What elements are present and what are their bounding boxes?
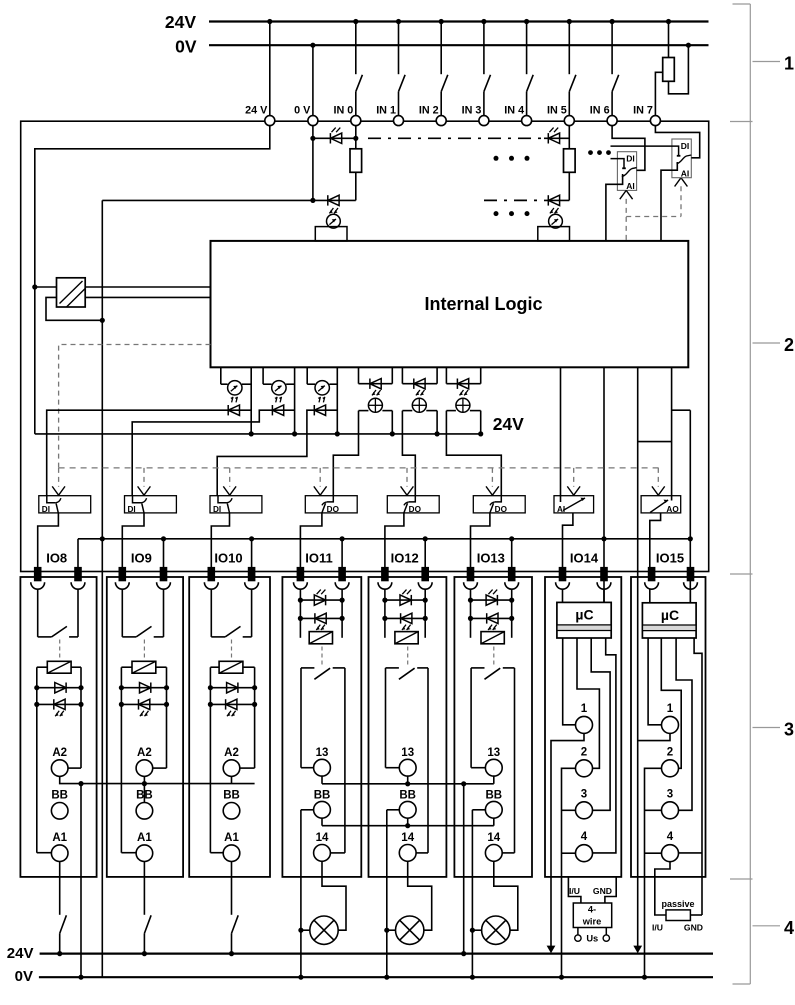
module IO10 frame (189, 577, 270, 877)
selector curve U2 (622, 168, 637, 177)
wire A2 link IO8 to IO10 (60, 776, 255, 783)
interface box DI (module IO10) (210, 496, 262, 513)
relay coil K4 module IO11 (309, 632, 332, 644)
wire box AI output to IO14 T1 (563, 513, 573, 567)
switch S0 on input IN 0 (355, 22, 357, 75)
suppressor diode D1 IN0 to 0V (313, 137, 356, 139)
relay contact module IO11 (301, 667, 314, 669)
suppressor diode module IO13 (470, 589, 472, 638)
terminal blocks module IO9 (119, 567, 127, 581)
contact wires module IO12 (385, 668, 387, 768)
module IO14 frame (545, 577, 621, 877)
svg-text:4-: 4- (588, 905, 596, 915)
svg-text:4: 4 (784, 918, 794, 938)
wire A2 stub IO10 (231, 776, 233, 783)
svg-text:13: 13 (401, 747, 414, 759)
wire box DI IO9 output to T1 (122, 513, 144, 567)
svg-text:Internal Logic: Internal Logic (424, 294, 542, 314)
svg-text:GND: GND (684, 923, 703, 933)
relay contact module IO12 (386, 667, 399, 669)
dashed actuation link IO8 (59, 640, 61, 660)
section label 4 (753, 925, 781, 927)
switch S4 on input IN 4 (526, 22, 528, 75)
wire cross link AO feed to IO15 feed (638, 441, 672, 443)
dashed config arrow into U2 (625, 199, 627, 241)
section divider tick (730, 878, 753, 880)
wire AI output U3 to Internal Logic (661, 162, 677, 241)
wire IO8 to 0V bottom rail (80, 784, 82, 978)
wire terminal bus 2-3-4 to 0V rail IO15 (645, 768, 662, 977)
net 24V internal rail (35, 433, 480, 435)
LED diode module IO9 (121, 703, 166, 705)
net 24V bottom rail (40, 952, 713, 954)
wire resistor to IN 7 terminal (655, 72, 662, 120)
terminal blocks module IO10 (208, 567, 216, 581)
wire 24V terminal down-left feed (35, 125, 270, 434)
LED diode D4 input IN5 (544, 199, 569, 201)
svg-text:BB: BB (223, 790, 240, 802)
module IO11 frame (282, 577, 361, 877)
microcontroller U6 module IO15 (642, 603, 696, 638)
relay contact module IO13 (471, 667, 484, 669)
wire branch to IO15 T2 line (672, 409, 691, 411)
svg-text:IN 5: IN 5 (547, 105, 567, 117)
coil rails module IO10 (209, 667, 211, 853)
svg-text:13: 13 (316, 747, 329, 759)
selector curve U3 (677, 155, 692, 164)
relay coil K1 module IO8 (47, 661, 71, 673)
svg-text:A2: A2 (137, 747, 152, 759)
wire box AO output to IO15 T1 (650, 513, 661, 567)
svg-text:A1: A1 (224, 832, 239, 844)
lamp load module IO11 (310, 916, 338, 944)
wire terminal bus 2-3-4 to 0V rail IO14 (562, 768, 576, 977)
resistor R1 (sensor) feeding IN 7 (668, 22, 670, 58)
svg-text:2: 2 (784, 335, 794, 355)
interface box AI (module IO14) (554, 496, 594, 513)
contact wires module IO13 (470, 668, 472, 768)
terminal blocks module IO8 (34, 567, 42, 581)
svg-text:µC: µC (575, 607, 593, 623)
suppressor diode D3 IN5 (544, 137, 569, 139)
switch S6 on input IN 6 (611, 22, 613, 75)
module IO13 frame (454, 577, 532, 877)
wire AI output U2 to Internal Logic (606, 174, 623, 241)
wire lamp to 0V drop module IO13 (472, 929, 481, 931)
relay coil K5 module IO12 (395, 632, 418, 644)
svg-text:DO: DO (327, 505, 340, 514)
wire terminal 1 to 24V supply (arrow) IO14 (551, 733, 584, 946)
interface box DO (module IO11) (305, 496, 357, 513)
dashed config arrow into interface box 6 (491, 468, 493, 487)
wire logic to IO15 feed and 24V supply arrow (637, 367, 639, 946)
svg-text:24V: 24V (165, 12, 196, 32)
module IO15 frame (631, 577, 706, 877)
wire 0V return line to DC converter (102, 199, 355, 201)
svg-text:DI: DI (42, 505, 50, 514)
wires terminals to uC IO15 (649, 589, 651, 603)
svg-text:0V: 0V (15, 968, 33, 985)
ellipsis dots (omitted channels) (494, 156, 499, 161)
wire 0V terminal to 0V rail (312, 45, 314, 120)
svg-text:BB: BB (51, 790, 68, 802)
dashed actuation link IO13 (493, 647, 495, 666)
wire terminal 1 to logic feed IO15 (638, 733, 670, 740)
svg-text:14: 14 (401, 832, 414, 844)
svg-text:DI: DI (681, 141, 690, 151)
wire 13 link line IO11-IO13 (322, 783, 494, 785)
switch S5 on input IN 5 (568, 22, 570, 75)
dashed config arrow into interface box 5 (406, 468, 408, 487)
svg-text:0 V: 0 V (294, 105, 311, 117)
wire BB to 0V rail module IO11 (301, 809, 314, 811)
svg-text:A1: A1 (137, 832, 152, 844)
dashed config arrow into interface box 4 (319, 468, 321, 487)
switch contact input module IO8 (37, 589, 39, 637)
svg-text:3: 3 (667, 788, 673, 800)
Internal Logic block U4 (211, 241, 689, 367)
svg-text:3: 3 (581, 788, 587, 800)
svg-text:1: 1 (667, 703, 674, 715)
svg-text:BB: BB (314, 790, 331, 802)
switch S1 on input IN 1 (398, 22, 400, 75)
section bracket line (749, 4, 751, 984)
wire 14 to lamp module IO13 (494, 861, 518, 930)
svg-text:AI: AI (626, 181, 635, 191)
wire box DO IO11 output to T1 (300, 513, 322, 567)
module IO9 frame (107, 577, 183, 877)
svg-text:24V: 24V (493, 414, 524, 434)
dashed config arrow into interface box 7 (573, 468, 575, 487)
svg-text:IO8: IO8 (46, 551, 67, 566)
svg-text:IO9: IO9 (131, 551, 152, 566)
wire IN7 to U3 (655, 125, 699, 158)
wire 24V terminal to 24V rail (269, 22, 271, 121)
section divider tick (730, 573, 753, 575)
suppressor diode module IO11 (299, 589, 301, 638)
wire DI1 output to box DI IO8 (47, 410, 252, 496)
wire box DO IO12 output to T1 (385, 513, 404, 567)
wire IN6 to U2 (612, 125, 645, 170)
DI/AI selector box U3 (IN7) (672, 139, 691, 178)
interface box DI (module IO8) (39, 496, 91, 513)
wire lamp to 0V drop module IO12 (387, 929, 396, 931)
LED diode module IO10 (210, 703, 254, 705)
svg-text:DO: DO (495, 505, 508, 514)
svg-text:I/U: I/U (569, 886, 580, 896)
optocoupler DI channel 1 below logic (220, 367, 222, 384)
wire 0V line down to modules (101, 200, 103, 977)
LED diode module IO12 (385, 617, 425, 619)
svg-text:BB: BB (399, 790, 416, 802)
svg-text:IN 4: IN 4 (504, 105, 524, 117)
module IO8 frame (20, 577, 96, 877)
svg-text:1: 1 (784, 54, 794, 74)
optocoupler DO channel 2 below logic (401, 367, 403, 383)
terminal blocks module IO11 (297, 567, 305, 581)
net 0V bottom rail (39, 976, 713, 978)
coil rails module IO8 (36, 667, 38, 853)
passive sensor loop module IO15 (655, 862, 670, 915)
freewheel diode module IO10 (210, 687, 254, 689)
suppressor diode module IO12 (384, 589, 386, 638)
wire box DO IO13 output to T1 (471, 513, 490, 567)
relay coil K3 module IO10 (219, 661, 243, 673)
svg-text:4: 4 (667, 831, 674, 843)
terminal blocks module IO14 (559, 567, 567, 581)
module bus coupler outer box (region 2) (21, 121, 709, 571)
wire A1 to bottom switch module IO10 (231, 862, 233, 915)
svg-text:24 V: 24 V (245, 105, 268, 117)
dashed branch to U3 (626, 216, 681, 218)
wire 13 link to 24V bottom rail (463, 784, 465, 954)
wire 0V terminal down (312, 125, 314, 200)
net 0V top rail (209, 44, 709, 46)
DI/AI selector box U2 (IN6) (617, 152, 636, 191)
dashed continuation of input circuits (upper) (368, 137, 542, 139)
optocoupler DO channel 3 below logic (445, 367, 447, 383)
uC pin wires to terminals 1-4 IO15 (648, 638, 661, 725)
svg-text:IO12: IO12 (391, 551, 419, 566)
switch S2 on input IN 2 (440, 22, 442, 75)
svg-text:2: 2 (667, 746, 673, 758)
LED diode module IO13 (471, 617, 512, 619)
svg-text:GND: GND (593, 886, 612, 896)
dashed config line into logic left (59, 345, 211, 468)
terminal blocks module IO15 (648, 567, 656, 581)
wire logic to IO14 T2 (603, 367, 605, 602)
interface box AO (module IO15) (641, 496, 681, 513)
relay coil K2 module IO9 (132, 661, 156, 673)
wire DO3 output to box DO IO13 (446, 411, 501, 496)
wire BB to 0V rail module IO13 (472, 809, 485, 811)
optocoupler DI channel 3 below logic (306, 367, 308, 384)
dashed config arrow into interface box 1 (58, 468, 60, 487)
wire A1 to bottom switch module IO9 (143, 862, 145, 915)
svg-text:I/U: I/U (652, 923, 663, 933)
wire converter outputs to Internal Logic (85, 286, 210, 288)
wire box DI IO10 output to T1 (211, 513, 229, 567)
wire lamp to 0V drop module IO11 (301, 929, 310, 931)
wire A1 to bottom switch module IO8 (59, 862, 61, 915)
svg-text:Us: Us (586, 933, 598, 943)
LED diode module IO11 (300, 617, 342, 619)
svg-text:2: 2 (581, 746, 587, 758)
section label 2 (753, 342, 781, 344)
svg-text:µC: µC (661, 607, 679, 623)
uC pin wires to terminals 1-4 IO14 (563, 638, 576, 725)
wire DI2 output to box DI IO9 (132, 410, 294, 496)
dashed actuation link IO11 (321, 647, 323, 666)
freewheel diode module IO8 (37, 687, 81, 689)
svg-text:0V: 0V (175, 37, 197, 57)
dashed actuation link IO12 (407, 647, 409, 666)
switch S3 on input IN 3 (483, 22, 485, 75)
LED diode D2 input IN0 (327, 195, 329, 205)
svg-text:IO11: IO11 (305, 551, 332, 566)
svg-text:24V: 24V (7, 945, 34, 962)
wire 14 to lamp module IO12 (408, 861, 432, 930)
optocoupler DO channel 1 below logic (358, 367, 360, 383)
resistor R2 input IN0 (355, 125, 357, 149)
wire DI stub into U2 (611, 159, 625, 169)
svg-text:DI: DI (213, 505, 221, 514)
dashed config arrow into interface box 2 (143, 468, 145, 487)
svg-text:DI: DI (128, 505, 136, 514)
svg-text:AI: AI (557, 505, 565, 514)
svg-text:1: 1 (581, 703, 588, 715)
svg-text:BB: BB (485, 790, 502, 802)
connector pins I/U GND module IO14 (568, 877, 581, 903)
wire DI stub into U3 (611, 146, 679, 156)
lamp load module IO12 (396, 916, 424, 944)
resistor R3 input IN5 (568, 125, 570, 149)
svg-text:4: 4 (581, 831, 588, 843)
terminal blocks module IO13 (467, 567, 475, 581)
interface box DO (module IO13) (473, 496, 525, 513)
svg-text:DO: DO (409, 505, 422, 514)
svg-text:13: 13 (487, 747, 500, 759)
net 24V top rail (209, 20, 709, 22)
wire logic to AO box (671, 367, 673, 500)
svg-text:passive: passive (661, 899, 694, 909)
lamp load module IO13 (482, 916, 510, 944)
svg-text:A1: A1 (52, 832, 67, 844)
dashed config arrow into interface box 3 (229, 468, 231, 487)
interface box DI (module IO9) (125, 496, 177, 513)
wire 14 to lamp module IO11 (322, 861, 346, 930)
dashed config arrow into interface box 8 (657, 468, 659, 487)
section label 3 (753, 727, 781, 729)
svg-text:IO13: IO13 (477, 551, 505, 566)
optocoupler input stage IN0 (327, 214, 341, 228)
Us supply pins module IO14 (577, 928, 579, 935)
svg-text:wire: wire (582, 917, 602, 927)
switch contact input module IO9 (121, 589, 123, 637)
wire 24V feed to converter (35, 286, 57, 288)
wire DI3 output to box DI IO10 (217, 410, 337, 496)
svg-text:IO14: IO14 (570, 551, 599, 566)
svg-text:IO10: IO10 (214, 551, 242, 566)
4-wire sensor box module IO14 (573, 903, 611, 928)
relay coil K6 module IO13 (481, 632, 504, 644)
DC/DC converter T1 (57, 278, 86, 307)
LED diode module IO8 (37, 703, 81, 705)
section label 1 (753, 61, 781, 63)
dashed configuration bus (59, 467, 659, 469)
svg-text:14: 14 (487, 832, 500, 844)
freewheel diode module IO9 (121, 687, 166, 689)
svg-text:IN 2: IN 2 (419, 105, 439, 117)
svg-text:A2: A2 (52, 747, 67, 759)
wire BB to 0V rail module IO12 (387, 809, 400, 811)
svg-text:IO15: IO15 (656, 551, 684, 566)
wire logic to AI box (560, 367, 562, 502)
optocoupler DI channel 2 below logic (262, 367, 264, 384)
wire DO2 output to box DO IO12 (402, 411, 415, 496)
dashed actuation link IO9 (143, 640, 145, 660)
svg-text:AO: AO (666, 505, 679, 514)
svg-text:14: 14 (316, 832, 329, 844)
interface box DO (module IO12) (387, 496, 439, 513)
ellipsis dots before DI/AI box (588, 150, 593, 155)
coil rails module IO9 (120, 667, 122, 853)
wire box DI IO8 output to T1 (38, 513, 59, 567)
terminal blocks module IO12 (381, 567, 389, 581)
wire resistor bottom to 0V rail (669, 45, 689, 94)
svg-text:IN 7: IN 7 (633, 105, 653, 117)
microcontroller U5 module IO14 (557, 602, 611, 638)
switch contact input module IO10 (210, 589, 212, 637)
svg-text:3: 3 (784, 720, 794, 740)
svg-text:IN 3: IN 3 (462, 105, 482, 117)
svg-text:IN 1: IN 1 (376, 105, 396, 117)
optocoupler input stage IN5 (549, 214, 563, 228)
dashed actuation link IO10 (231, 640, 233, 660)
net 0V distribution rail to module T2 terminals (78, 538, 690, 540)
svg-text:A2: A2 (224, 747, 239, 759)
svg-text:DI: DI (626, 154, 635, 164)
wire converter 0V input (46, 297, 102, 320)
section divider tick (730, 121, 753, 123)
svg-text:IN 0: IN 0 (333, 105, 353, 117)
svg-text:IN 6: IN 6 (590, 105, 610, 117)
wires terminals to uC IO14 (562, 589, 564, 602)
dashed continuation (lower) (484, 199, 542, 201)
contact wires module IO11 (300, 668, 302, 768)
svg-text:AI: AI (681, 168, 690, 178)
module IO12 frame (369, 577, 447, 877)
wire BB link line IO11-IO13 (322, 825, 494, 827)
wire DO1 output to box DO IO11 (333, 411, 358, 496)
wire A2/BB link drop to BB IO9 (143, 776, 145, 802)
